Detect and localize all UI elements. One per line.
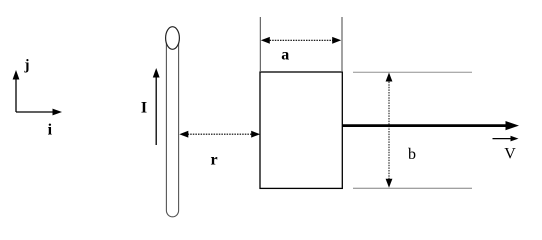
svg-text:j: j (24, 57, 30, 73)
svg-text:b: b (408, 146, 416, 163)
svg-text:r: r (210, 151, 217, 168)
svg-text:I: I (141, 99, 147, 116)
svg-text:i: i (48, 121, 53, 138)
svg-text:a: a (281, 47, 289, 64)
svg-text:V: V (504, 146, 516, 163)
